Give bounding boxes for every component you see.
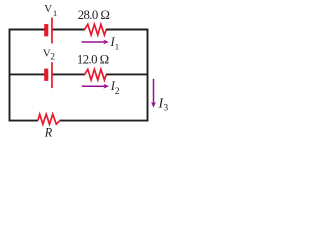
- label I3: [158, 96, 169, 113]
- svg-text:R: R: [44, 125, 53, 139]
- battery V1 long thin plate: [51, 18, 53, 44]
- resistor R zigzag: [38, 114, 60, 124]
- svg-text:V: V: [44, 3, 52, 15]
- svg-text:2: 2: [50, 52, 55, 62]
- resistor 12.0 ohm zigzag: [84, 69, 106, 80]
- battery V1 short thick plate: [44, 24, 48, 36]
- battery V2 long thin plate: [51, 62, 53, 88]
- wire: top branch between battery V1 and resistor 28: [52, 29, 85, 31]
- wire: top-right loop (top wire right segment, right wire, bottom wire right segment): [60, 30, 148, 121]
- svg-text:1: 1: [53, 8, 57, 18]
- label I2: [110, 79, 120, 97]
- wire: top-left loop (top wire left segment, left wire, bottom wire left segment): [10, 30, 45, 121]
- svg-text:12.0 Ω: 12.0 Ω: [77, 53, 109, 67]
- svg-text:3: 3: [163, 103, 168, 114]
- wire: middle branch between battery V2 and resistor 12: [52, 73, 85, 75]
- label V2: [43, 47, 55, 62]
- current arrow I1: [82, 40, 109, 45]
- svg-text:28.0 Ω: 28.0 Ω: [78, 8, 110, 22]
- current arrow I3: [151, 79, 156, 108]
- svg-text:2: 2: [115, 86, 120, 97]
- resistor 28.0 ohm zigzag: [84, 24, 106, 35]
- current arrow I2: [82, 84, 109, 89]
- label I1: [110, 35, 120, 51]
- wire: middle branch left of battery V2: [10, 73, 45, 75]
- wire: middle branch right of resistor 12: [106, 73, 148, 75]
- label V1: [44, 3, 57, 18]
- svg-text:1: 1: [115, 41, 119, 51]
- battery V2 short thick plate: [44, 69, 48, 81]
